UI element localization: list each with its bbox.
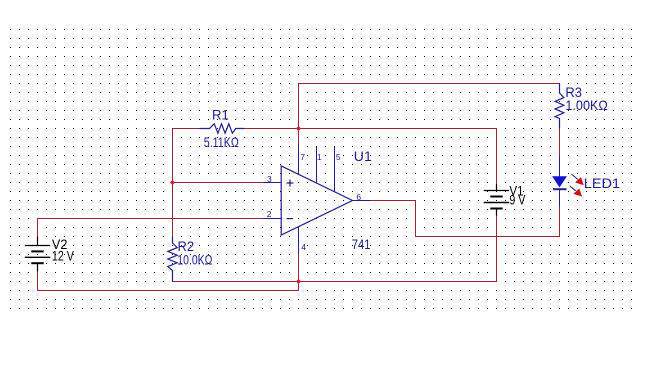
LED1 anode lead [559, 157, 561, 177]
wire: op-amp pin 4 down to bottom junction [298, 254, 300, 282]
wire: V2 bottom to ground bus [38, 272, 299, 291]
svg-text:7: 7 [300, 152, 305, 162]
wire: top junction over to V1 top [299, 129, 497, 185]
LED1 cathode bar [553, 188, 567, 190]
wire: top rail over to R3 [299, 83, 560, 85]
wire: R3 bottom to LED anode [559, 129, 561, 157]
op-amp pin 5 stub [334, 147, 336, 192]
wire: feedback vertical R1 to R2 [172, 129, 174, 237]
svg-text:741: 741 [352, 237, 371, 252]
junction node: feedback/pin3 [170, 180, 175, 185]
LED1 emission arrow 1 [572, 174, 584, 185]
resistor R2 [168, 237, 177, 282]
svg-text:12 V: 12 V [52, 248, 74, 263]
svg-text:9 V: 9 V [509, 192, 525, 207]
op-amp input stub pin 3 [263, 182, 282, 184]
wire: bottom junction to V1 bottom [299, 216, 497, 282]
svg-text:1: 1 [317, 152, 322, 162]
resistor R3 [555, 84, 564, 129]
wire: V2 plus terminal to op-amp pin 2 [38, 219, 263, 237]
svg-text:6: 6 [356, 192, 361, 202]
LED1 cathode lead [559, 190, 561, 206]
svg-text:1.00KΩ: 1.00KΩ [565, 98, 608, 113]
svg-text:4: 4 [301, 242, 306, 252]
op-amp pin 4 stub [298, 227, 300, 254]
wire: top junction up to top rail [298, 84, 300, 129]
wire: R1 right lead to top junction [245, 128, 299, 130]
LED1 triangle [552, 176, 567, 187]
svg-text:2: 2 [267, 209, 272, 219]
wire: feedback junction to op-amp pin 3 [173, 182, 263, 184]
op-amp output stub pin 6 [353, 200, 371, 202]
svg-text:R1: R1 [212, 108, 229, 123]
svg-text:10.0KΩ: 10.0KΩ [177, 252, 212, 267]
svg-text:LED1: LED1 [584, 176, 620, 191]
LED1 emission arrow 2 [570, 186, 582, 197]
svg-text:3: 3 [267, 174, 272, 184]
junction node: top (R1/pin7/V1/rail) [296, 126, 301, 131]
op-amp minus sign [287, 218, 294, 220]
op-amp pin 1 stub [316, 147, 318, 184]
wire: R2 bottom lead to bottom junction [173, 281, 299, 283]
svg-text:U1: U1 [354, 149, 372, 164]
op-amp input stub pin 2 [263, 218, 282, 220]
wire: R1 left lead to feedback corner [173, 128, 200, 130]
wire: op-amp pin 7 up to top junction [298, 129, 300, 145]
op-amp pin 7 stub [298, 145, 300, 175]
battery V1 [484, 184, 509, 216]
op-amp U1 body [281, 166, 352, 235]
battery V2 [25, 237, 50, 272]
grid dots (sheet area) [10, 29, 632, 310]
resistor R1 [200, 124, 245, 133]
svg-text:5.11KΩ: 5.11KΩ [204, 135, 239, 150]
svg-text:5: 5 [336, 152, 341, 162]
wire: op-amp output to LED cathode [371, 201, 560, 237]
junction node: bottom (R2/pin4/V1/bus) [296, 279, 301, 284]
op-amp plus sign [287, 180, 294, 187]
